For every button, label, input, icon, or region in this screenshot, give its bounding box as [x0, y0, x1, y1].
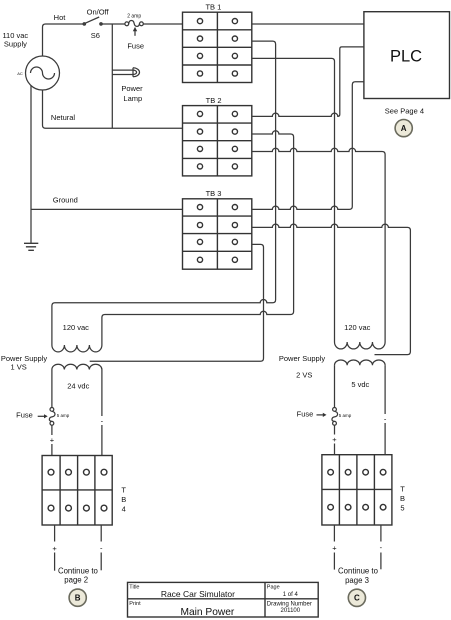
svg-text:2 VS: 2 VS — [296, 371, 312, 380]
label Power Supply 1 VS — [1, 354, 48, 371]
svg-text:120 vac: 120 vac — [344, 323, 371, 332]
svg-text:Drawing Number: Drawing Number — [267, 601, 312, 607]
label T B 5 — [400, 485, 405, 513]
wire fuse F2 to TB4 col1 with + marker — [48, 425, 56, 455]
svg-text:Continue to: Continue to — [58, 566, 99, 575]
label Continue to page 3 — [338, 567, 379, 586]
transformer T1 secondary winding — [52, 364, 102, 369]
fuse F3 5 amp — [332, 408, 338, 426]
svg-text:+: + — [52, 544, 57, 553]
svg-text:Power Supply: Power Supply — [279, 354, 326, 363]
wire below TB4 right with - marker — [97, 525, 105, 570]
svg-text:S6: S6 — [91, 31, 100, 40]
svg-text:TB 2: TB 2 — [206, 96, 222, 105]
wire hot from AC source to switch — [43, 24, 85, 56]
AC source — [17, 56, 59, 90]
terminal block TB1 — [183, 12, 252, 82]
wire TB2 row3 to T2 primary right — [252, 148, 385, 342]
svg-text:Main Power: Main Power — [181, 607, 235, 618]
wire T1 secondary right to TB4 col4 with - marker — [98, 370, 106, 456]
svg-text:TB 3: TB 3 — [206, 189, 222, 198]
svg-text:Fuse: Fuse — [16, 410, 33, 419]
wire TB1 row1 to PLC — [252, 23, 364, 25]
svg-text:See Page 4: See Page 4 — [385, 107, 424, 116]
connector C — [348, 589, 365, 606]
svg-text:24 vdc: 24 vdc — [67, 381, 89, 390]
svg-text:On/Off: On/Off — [87, 7, 110, 16]
svg-text:Continue to: Continue to — [338, 567, 379, 576]
svg-text:5 vdc: 5 vdc — [351, 380, 369, 389]
svg-text:Fuse: Fuse — [127, 41, 144, 50]
connector A — [395, 120, 412, 137]
wire TB3 row2 to T2 secondary right — [252, 224, 411, 355]
wire fuse F3 to TB5 col1 with + marker — [331, 425, 339, 455]
svg-text:1 VS: 1 VS — [10, 362, 26, 371]
terminal block TB2 — [183, 106, 252, 176]
wire ground vertical from AC source — [30, 86, 32, 244]
wire T1 secondary left to fuse — [51, 370, 53, 408]
fuse F2 5 amp — [49, 408, 55, 426]
svg-text:C: C — [354, 594, 360, 603]
label Fuse (left) with arrow — [16, 410, 33, 419]
wire TB3 row3 to T1 secondary right — [90, 244, 264, 361]
svg-text:Lamp: Lamp — [123, 94, 142, 103]
svg-text:Ground: Ground — [53, 195, 78, 204]
svg-text:B: B — [75, 594, 81, 603]
svg-text:Page: Page — [267, 585, 280, 591]
terminal block TB4 — [42, 456, 112, 526]
wire below TB5 right with - marker — [377, 525, 385, 569]
title block texts — [129, 585, 312, 619]
fuse F1 2 amp — [125, 21, 143, 27]
wire below TB5 left with + marker — [330, 525, 338, 570]
wire T2 secondary right to TB5 col4 with - marker — [381, 365, 389, 455]
ground symbol — [24, 243, 38, 250]
svg-text:B: B — [400, 494, 405, 503]
svg-text:AC: AC — [17, 71, 23, 76]
wire TB1 row2 to T1 primary left — [52, 41, 276, 345]
svg-text:page 2: page 2 — [64, 576, 88, 585]
svg-text:page 3: page 3 — [345, 576, 369, 585]
label Fuse (right) with arrow — [297, 410, 314, 419]
svg-text:201100: 201100 — [281, 608, 301, 614]
svg-text:1 of 4: 1 of 4 — [283, 592, 299, 598]
transformer T2 primary winding — [335, 342, 386, 349]
PLC box U1 — [364, 12, 450, 99]
wire lamp branch — [111, 24, 113, 128]
wire switch to fuse — [102, 23, 125, 25]
svg-text:Supply: Supply — [4, 40, 27, 49]
svg-text:2 amp: 2 amp — [127, 13, 141, 19]
svg-text:Race Car Simulator: Race Car Simulator — [161, 589, 235, 599]
wire TB3 row1 to PLC — [252, 82, 364, 210]
power lamp — [112, 68, 139, 77]
svg-text:5 amp: 5 amp — [57, 413, 70, 418]
transformer T1 primary winding — [52, 345, 102, 352]
svg-text:5 amp: 5 amp — [339, 413, 352, 418]
label Continue to page 2 — [58, 566, 99, 584]
svg-text:PLC: PLC — [390, 48, 422, 66]
wire TB1 row3 to T2 primary left — [252, 58, 335, 342]
title block frame — [128, 582, 319, 617]
svg-text:Netural: Netural — [51, 113, 76, 122]
svg-text:B: B — [121, 495, 126, 504]
svg-text:Hot: Hot — [54, 13, 67, 22]
svg-text:120 vac: 120 vac — [63, 323, 90, 332]
terminal block TB3 — [183, 199, 252, 269]
svg-text:T: T — [400, 485, 405, 494]
svg-text:4: 4 — [122, 504, 126, 513]
svg-text:Print: Print — [129, 601, 141, 607]
svg-text:5: 5 — [400, 503, 404, 512]
terminal block TB5 — [322, 455, 392, 525]
wire below TB4 left with + marker — [51, 525, 59, 571]
svg-text:+: + — [50, 435, 55, 444]
switch S6 — [83, 17, 102, 25]
svg-text:Title: Title — [129, 585, 139, 591]
arrow to fuse F1 — [133, 27, 137, 36]
label 110 vac Supply — [2, 31, 28, 49]
wire TB2 row1 to PLC — [252, 47, 364, 117]
svg-text:+: + — [332, 544, 337, 553]
svg-text:Fuse: Fuse — [297, 410, 314, 419]
transformer T2 secondary winding — [335, 360, 386, 365]
svg-text:TB 1: TB 1 — [205, 2, 221, 11]
svg-text:Power: Power — [121, 84, 143, 93]
wire neutral from AC source to TB2 row2 — [43, 90, 183, 128]
svg-text:A: A — [401, 124, 407, 133]
wire ground to TB3 row1 — [31, 208, 183, 210]
connector B — [69, 589, 86, 606]
label T B 4 — [121, 485, 126, 513]
svg-text:T: T — [121, 485, 126, 494]
svg-text:+: + — [332, 435, 337, 444]
label Power Lamp — [121, 84, 143, 103]
wire T2 secondary left to fuse — [334, 365, 336, 407]
label Power Supply 2 VS — [279, 354, 326, 380]
wire TB2 row2 to T1 primary right — [102, 131, 294, 345]
wire fuse to TB1 row1 — [143, 23, 182, 25]
